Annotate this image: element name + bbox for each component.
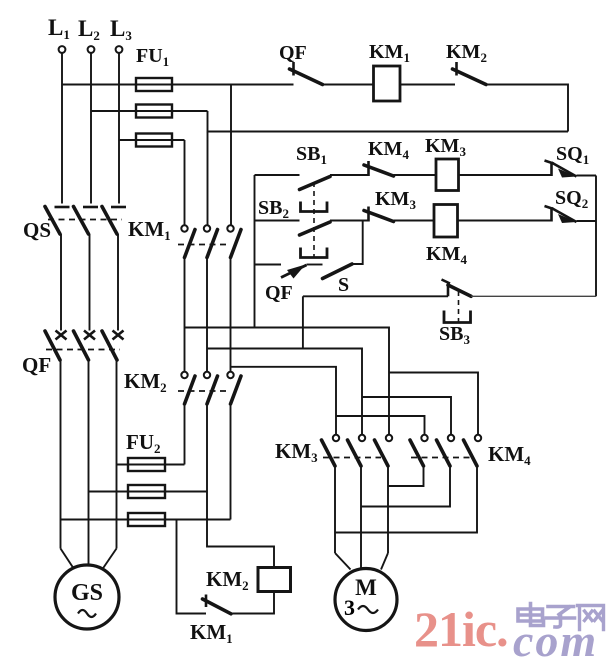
limit switch SQ1 NC [545, 161, 577, 178]
coil KM4 [434, 205, 458, 238]
breaker QF pole 1 [45, 331, 67, 361]
wire L2 column bottom [88, 360, 90, 565]
contact QF aux with trip arrow [281, 265, 307, 279]
node L3 terminal [110, 16, 132, 53]
wire row L1 to FU1-1 and on to QF aux [62, 84, 294, 86]
contactor KM2 main contact 3 [227, 372, 241, 404]
wire KM4 coil to SQ2 [458, 220, 552, 222]
button SB1 bracket [301, 202, 328, 212]
switch QS pole 1 [45, 207, 70, 235]
wire SB3 row left [303, 295, 448, 297]
wire GS left taper [61, 549, 74, 568]
wire L3 column top [118, 53, 120, 204]
button SB3 NC [442, 280, 472, 297]
contact KM4 NC [364, 161, 394, 176]
wire KM2 pole3 down to FU2-3 [230, 404, 232, 520]
wire SB1-SB2 actuator dashed [313, 182, 315, 258]
button SB1 NC [300, 177, 331, 190]
wire Y348 (phase c2 to KM3-2/KM4-2) [207, 349, 362, 435]
wire SB2 to KM3 NC [330, 220, 369, 222]
wire row3 stub [255, 264, 282, 266]
contactor KM1 main contact 2 [204, 225, 218, 257]
wire right rail [595, 176, 597, 297]
watermark dianziwang outlined chars [518, 604, 604, 630]
wire SB1 to KM4 NC [330, 174, 369, 176]
wire L1 column bottom [60, 360, 62, 549]
svg-text:QF: QF [22, 353, 51, 377]
wire motor V (KM3-2 down) [360, 466, 362, 569]
wire QS linkage dashed [48, 219, 122, 221]
fuse FU2-3 [128, 513, 165, 526]
wire FU2-1 row [117, 464, 185, 466]
limit switch SQ2 NC [545, 206, 577, 223]
wire KM2 NC to right corner and down to row B [486, 85, 568, 132]
wire L3 column mid [117, 234, 119, 331]
fuse FU2-1 [128, 458, 165, 471]
contactor KM1 main contact 3 [227, 225, 241, 257]
wire row2 stub [255, 220, 300, 222]
wire GS right taper [103, 549, 117, 570]
fuse FU1-3 [136, 134, 172, 147]
wire L3 column bottom [116, 360, 118, 549]
button SB2 bracket [301, 248, 328, 258]
wire S up to row2 [352, 221, 363, 265]
switch QS pole 3 [102, 207, 126, 235]
contactor KM4 contact 1 [410, 435, 428, 466]
coil KM2 [258, 568, 291, 592]
coil KM3 [436, 159, 459, 191]
fuse FU1-1 [136, 78, 172, 91]
wire motor W taper [381, 553, 388, 570]
breaker QF pole 2 [74, 331, 96, 361]
contactor KM2 main contact 2 [204, 372, 218, 404]
contact KM3 NC [364, 207, 394, 222]
svg-text:GS: GS [71, 580, 103, 606]
wire L1 riser to KM1 pole3 [230, 85, 232, 226]
wire QF linkage dashed [46, 349, 120, 351]
wire motor U taper [335, 553, 351, 570]
wire motor U (KM3-1 down) [334, 466, 336, 553]
wire L2 column mid [89, 234, 91, 331]
wire KM4 linkage dashed [411, 457, 470, 459]
wire SQ2 to right rail [577, 220, 597, 222]
wire L1 column mid [60, 234, 62, 331]
wire KM2 pole1 down to FU2-1 [184, 404, 186, 465]
svg-text:QF: QF [279, 42, 307, 64]
wire KM4-1 crossover to W [388, 466, 424, 486]
wire Y327 (phase c1 to KM3-3/KM4-3) [185, 328, 390, 435]
wire branch to KM4-1 [336, 416, 425, 435]
wire KM1 NC feed from FU2-3 row [177, 520, 207, 614]
svg-text:com: com [513, 615, 598, 657]
wire KM1 coil to KM2 NC [400, 84, 455, 86]
wire FU2-3 row [61, 519, 231, 521]
fuse FU1-2 [136, 105, 172, 118]
wire row L3 to FU1-3 [119, 139, 185, 141]
wire row L2 to FU1-2 [91, 110, 208, 112]
wire L2 riser to KM1 pole2 [207, 132, 209, 226]
wire SB3 feed (down from row3 corner to Y348) [302, 296, 304, 348]
wire phase c2 (KM1 pole2 to KM2 pole2) [206, 258, 208, 372]
switch QS pole 2 [74, 207, 99, 235]
button SB2 NC [300, 222, 331, 235]
svg-text:QS: QS [23, 218, 51, 242]
wire motor W (KM3-3 down) [387, 466, 389, 553]
svg-text:21ic.: 21ic. [414, 601, 508, 657]
svg-text:3: 3 [344, 595, 355, 620]
wire SB3 actuator dashed [458, 291, 460, 322]
wire QF aux to S [307, 264, 323, 266]
contact KM2 NC interlock [453, 62, 487, 85]
wire KM4 NC to KM3 coil [394, 174, 437, 176]
contact QF top auxiliary NC [290, 62, 323, 85]
contactor KM3 contact 3 [375, 435, 393, 466]
motor M 3-phase [335, 569, 397, 631]
wire branch to KM4-2 [362, 397, 451, 435]
contactor KM2 main contact 1 [181, 372, 195, 404]
wire left rail [254, 175, 256, 328]
wire SB3 to right rail [471, 295, 596, 297]
wire KM1 linkage dashed [178, 244, 228, 246]
contactor KM3 contact 1 [322, 435, 340, 466]
wire c2 down and over to KM2 coil top [207, 492, 274, 568]
contactor KM1 main contact 1 [181, 225, 195, 257]
wire KM3 linkage dashed [323, 457, 381, 459]
svg-text:S: S [338, 274, 349, 296]
contactor KM4 contact 3 [464, 435, 482, 466]
wire KM4-2 crossover to V [361, 466, 450, 507]
wire L2 column top [90, 53, 92, 204]
breaker QF pole 3 [102, 331, 124, 361]
wire L3 riser to KM1 pole1 [184, 140, 186, 225]
contact KM1 NC interlock [203, 595, 232, 614]
wire KM2 pole2 down to FU2-2 [206, 404, 208, 492]
node L2 terminal [78, 16, 100, 53]
wire Y366 (phase c3 to KM3-1/KM4-1) [231, 367, 337, 435]
switch S [323, 264, 353, 279]
wire phase c3 (KM1 pole3 to KM2 pole3) [230, 258, 232, 372]
wire FU2-2 row [89, 491, 208, 493]
wire KM2 linkage dashed [178, 390, 228, 392]
wire row B (fuse2 elbow to right corner) [208, 111, 569, 132]
fuse FU2-2 [128, 485, 165, 498]
node L1 terminal [48, 15, 70, 53]
contactor KM4 contact 2 [437, 435, 455, 466]
wire KM2 coil bottom to KM1 NC [231, 592, 274, 614]
contactor KM3 contact 2 [348, 435, 366, 466]
button SB3 bracket [444, 311, 471, 323]
svg-text:QF: QF [265, 282, 293, 304]
wire KM3 NC to KM4 coil [394, 220, 435, 222]
wire SQ1 to right rail [577, 175, 597, 177]
wire phase c1 (KM1 pole1 to KM2 pole1) [184, 258, 186, 372]
generator GS [55, 565, 119, 629]
wire L1 column top [61, 53, 63, 204]
wire KM4-3 crossover to U [335, 466, 477, 533]
wire branch to KM4-3 [389, 373, 478, 435]
wire KM3 coil to SQ1 [459, 174, 552, 176]
wire row1 stub [255, 174, 300, 176]
svg-text:M: M [355, 575, 377, 600]
wire QF aux to KM1 coil [323, 84, 374, 86]
coil KM1 [374, 66, 401, 101]
